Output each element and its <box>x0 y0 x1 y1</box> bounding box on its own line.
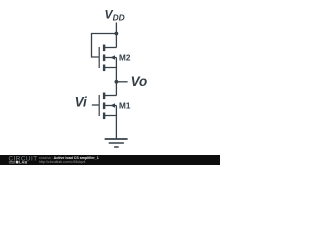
svg-text:M1: M1 <box>119 102 131 111</box>
svg-text:DD: DD <box>113 13 125 23</box>
wire M2 body-source tie and source lead <box>105 58 116 68</box>
wire M2 drain lead <box>105 47 116 49</box>
M1 channel segment (drain) <box>103 93 105 100</box>
svg-text:LAB: LAB <box>19 160 27 164</box>
label VDD <box>105 8 125 23</box>
transistor M2 (NMOS, diode-connected load) <box>99 45 115 72</box>
caption bar <box>0 155 220 165</box>
svg-text:M2: M2 <box>119 54 131 63</box>
M1 body arrow (points to channel) <box>110 103 115 108</box>
wire M1 drain lead <box>105 95 116 97</box>
svg-text:Vo: Vo <box>131 74 148 89</box>
node Vo junction dot <box>115 80 119 84</box>
junction at VDD/gate loop <box>115 32 119 36</box>
M1 channel segment (body) <box>103 103 105 110</box>
M1 gate bar <box>99 95 100 116</box>
M2 channel segment (source) <box>103 65 105 72</box>
CircuitLab watermark logo <box>9 156 38 165</box>
node VDD wire (vertical from VDD label to M2 drain) <box>115 23 117 48</box>
wire M1 body-source tie and source lead <box>105 106 116 116</box>
ground <box>105 139 128 147</box>
M2 channel segment (body) <box>103 55 105 62</box>
M2 body arrow (points to channel) <box>110 55 115 60</box>
wire M2 body lead <box>105 57 116 59</box>
wire M2 source to M1 drain (Vo rail) <box>115 68 117 96</box>
wire Vo stub <box>116 81 127 83</box>
M2 gate bar <box>99 47 100 68</box>
wire M1 gate lead from Vi <box>92 104 99 106</box>
M2 channel segment (drain) <box>103 45 105 52</box>
transistor M1 (NMOS driver) <box>99 93 115 120</box>
wire M1 body lead <box>105 105 116 107</box>
wire M1 source to ground <box>115 116 117 140</box>
wire M2 gate feedback loop <box>92 34 117 58</box>
svg-text:Vi: Vi <box>75 95 87 110</box>
M1 channel segment (source) <box>103 113 105 120</box>
svg-text:http://circuitlab.com/c/56dqv4: http://circuitlab.com/c/56dqv4 <box>39 160 86 164</box>
